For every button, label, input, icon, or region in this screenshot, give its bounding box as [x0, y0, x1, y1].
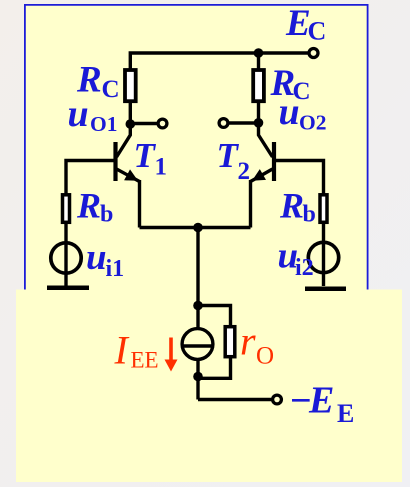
wire rO top branch [198, 306, 231, 328]
svg-text:E: E [308, 380, 334, 422]
node rO top dot [193, 301, 203, 311]
wire T1 base to Rb1 [66, 161, 114, 196]
label uO1 [68, 93, 118, 136]
svg-text:r: r [240, 319, 256, 364]
svg-text:u: u [86, 237, 107, 278]
ground right [305, 287, 346, 292]
resistor Rb2 [320, 195, 327, 223]
wire Rb2 to ground through source [322, 222, 325, 286]
label IEE [114, 328, 159, 373]
wire top drop to RC2 [257, 53, 260, 69]
label EC [285, 3, 326, 46]
wire stub to uO1 terminal [131, 122, 159, 125]
svg-text:O2: O2 [299, 111, 326, 135]
svg-text:u: u [68, 93, 89, 135]
wire rO bottom branch [198, 356, 231, 378]
svg-text:R: R [279, 186, 304, 226]
svg-text:C: C [308, 17, 327, 46]
label ui2 [278, 236, 314, 282]
wire spine from emitter junction down [196, 228, 199, 330]
label RC2 [270, 63, 311, 105]
source ui1 [51, 243, 81, 273]
svg-text:I: I [114, 328, 130, 373]
terminal EC open circle [309, 49, 318, 58]
svg-text:i1: i1 [106, 256, 125, 282]
svg-text:O: O [256, 343, 274, 370]
transistor T2 [251, 124, 275, 182]
svg-text:i2: i2 [295, 255, 314, 281]
ground left [47, 285, 89, 290]
wire source bottom down [196, 360, 199, 400]
svg-text:u: u [279, 91, 300, 133]
transistor T1 [116, 124, 140, 182]
label Rb1 [76, 186, 113, 228]
label Rb2 [279, 186, 316, 228]
svg-text:2: 2 [238, 158, 251, 185]
wire RC1 bottom to node [129, 101, 132, 126]
svg-text:T: T [134, 136, 157, 175]
label -EE [289, 380, 354, 429]
svg-text:E: E [337, 399, 354, 428]
svg-text:R: R [76, 186, 101, 226]
wire T2 base to Rb2 [276, 161, 324, 196]
label T1 [134, 136, 168, 181]
wire Rb1 to ground through source [64, 222, 67, 286]
resistor RC2 [253, 70, 264, 101]
node emitter junction dot [193, 223, 203, 233]
node junction on top rail [254, 48, 264, 58]
label T2 [217, 136, 251, 185]
label rO [240, 319, 274, 370]
svg-text:T: T [217, 136, 240, 175]
resistor rO [225, 327, 235, 357]
svg-text:EE: EE [131, 348, 159, 373]
svg-text:b: b [100, 202, 113, 228]
wire T1 emitter down to bus [138, 180, 141, 228]
wire top rail with left drop to RC1 [130, 53, 309, 69]
wire stub to uO2 terminal [228, 121, 258, 124]
label ui1 [86, 237, 124, 282]
svg-text:1: 1 [155, 154, 168, 181]
svg-text:O1: O1 [90, 112, 117, 136]
wire emitter bus [140, 226, 251, 229]
current arrow IEE [165, 338, 178, 372]
wire RC2 bottom to node [257, 101, 260, 125]
label RC1 [76, 60, 120, 104]
node uO1 dot [126, 119, 136, 129]
wire T2 emitter down to bus [249, 180, 252, 228]
node rO bottom dot [193, 372, 203, 382]
terminal EE open circle [273, 395, 282, 404]
terminal uO2 open circle [219, 119, 228, 128]
svg-text:C: C [102, 76, 120, 103]
source ui2 [308, 242, 338, 272]
label uO2 [279, 91, 327, 135]
node uO2 dot [254, 118, 264, 128]
current source IEE [182, 329, 213, 360]
terminal uO1 open circle [158, 119, 167, 128]
wire to EE terminal [198, 398, 272, 401]
resistor Rb1 [63, 195, 70, 223]
svg-text:b: b [303, 202, 316, 228]
resistor RC1 [125, 70, 136, 101]
